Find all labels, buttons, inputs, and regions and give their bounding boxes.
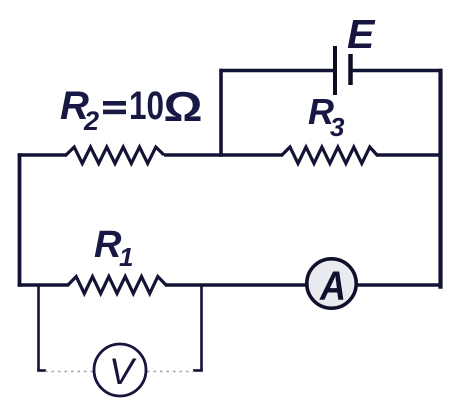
svg-text:V: V [109, 351, 137, 392]
voltmeter V [94, 344, 146, 396]
svg-text:R: R [94, 224, 122, 266]
wire: dashed left lead to voltmeter [45, 371, 94, 373]
svg-text:1: 1 [119, 242, 133, 272]
svg-text:E: E [347, 11, 376, 57]
wire: middle left segment [18, 153, 68, 156]
resistor R2 [66, 147, 164, 164]
wire: voltmeter right stub [200, 285, 203, 371]
wire: dashed right lead from voltmeter [147, 371, 194, 373]
wire: right edge vertical [438, 69, 442, 289]
svg-text:3: 3 [330, 112, 345, 142]
svg-text:2: 2 [83, 106, 99, 136]
label R3 [308, 91, 345, 142]
wire: voltmeter left stub [37, 285, 40, 371]
battery E short plate [348, 54, 353, 85]
resistor R3 [282, 147, 377, 164]
wire: top left horizontal from node to battery [220, 69, 334, 72]
wire: middle center segment [164, 153, 283, 156]
wire: voltmeter right corner [193, 369, 203, 372]
wire: bottom left segment [18, 283, 70, 286]
battery E long plate [333, 46, 337, 95]
svg-text:10: 10 [129, 84, 164, 128]
resistor R1 [68, 277, 166, 294]
wire: bottom center segment to ammeter [165, 283, 307, 286]
svg-text:Ω: Ω [164, 83, 203, 130]
wire: left edge vertical [18, 153, 22, 286]
label R2 = 10ohm [60, 83, 203, 136]
wire: bottom right segment from ammeter to right edge [357, 283, 442, 286]
wire: vertical junction drop at x=221 [219, 69, 223, 157]
ammeter A [307, 259, 356, 308]
label R1 [94, 224, 133, 272]
wire: voltmeter left corner [37, 369, 46, 372]
svg-text:A: A [319, 263, 346, 309]
wire: middle right segment [376, 153, 442, 156]
wire: top right horizontal from battery to right edge [352, 69, 442, 72]
